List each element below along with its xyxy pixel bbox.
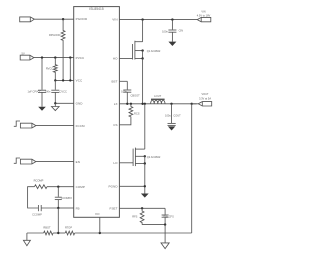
capacitor CVCC bbox=[54, 80, 56, 89]
svg-text:RCOMP: RCOMP bbox=[34, 178, 44, 182]
transistor Q2 (low side) bbox=[132, 149, 134, 166]
node EN input flag with pulse bbox=[14, 158, 20, 163]
svg-text:BST: BST bbox=[111, 79, 117, 83]
svg-text:100p CFS: 100p CFS bbox=[163, 216, 175, 219]
node junction FSET gnd bbox=[164, 223, 166, 225]
svg-text:FSET: FSET bbox=[110, 206, 118, 210]
svg-text:COMP: COMP bbox=[76, 185, 85, 189]
svg-text:CBOOT: CBOOT bbox=[131, 93, 141, 97]
capacitor CPVCC bbox=[41, 58, 43, 90]
node junction COUT bbox=[170, 103, 172, 105]
svg-text:GND: GND bbox=[76, 102, 84, 106]
node junction VCC/Rpgood bbox=[62, 79, 64, 81]
svg-text:100n: 100n bbox=[162, 30, 168, 34]
svg-text:EN: EN bbox=[76, 160, 80, 164]
wire FB to divider bbox=[57, 208, 59, 233]
svg-text:CIN: CIN bbox=[179, 29, 184, 33]
node junction Q1 drain bbox=[141, 18, 143, 20]
svg-text:100u: 100u bbox=[165, 114, 171, 118]
svg-text:PGND: PGND bbox=[109, 184, 119, 188]
resistor RCS bbox=[119, 104, 132, 125]
svg-text:VO: VO bbox=[95, 212, 100, 216]
node junction PGND bbox=[144, 185, 146, 187]
wire FSET bottom bbox=[142, 224, 165, 226]
svg-text:CS: CS bbox=[113, 123, 117, 127]
svg-text:1uF CPVCC: 1uF CPVCC bbox=[28, 91, 42, 94]
resistor RBOT bbox=[44, 231, 54, 235]
node 5V input flag bbox=[20, 55, 34, 60]
ground (open V, FSET) bbox=[161, 243, 169, 249]
svg-text:4.5V to 18V: 4.5V to 18V bbox=[197, 13, 211, 17]
node junction Rcs/LX bbox=[130, 103, 132, 105]
node junction feedback bbox=[191, 103, 193, 105]
wire PGOOD flag to pin bbox=[34, 18, 73, 20]
node junction VO pin bbox=[99, 232, 101, 234]
capacitor CFS bbox=[164, 208, 166, 214]
op-amp U1 (regulator IC body) bbox=[74, 7, 120, 218]
node junction Q1 source/LX bbox=[141, 103, 143, 105]
wire COMP pin bbox=[47, 186, 74, 188]
node junction GND/Cvcc bbox=[54, 102, 56, 104]
node junction Cpvcc bbox=[41, 56, 43, 58]
svg-text:CCOMP: CCOMP bbox=[32, 213, 42, 217]
wire VOUT rail bbox=[165, 103, 197, 105]
svg-text:RVCC: RVCC bbox=[46, 67, 53, 71]
node junction VCC/link bbox=[69, 79, 71, 81]
node junction PGOOD/Rpgood bbox=[62, 18, 64, 20]
svg-text:RBOT: RBOT bbox=[43, 226, 51, 230]
svg-text:PVCC: PVCC bbox=[76, 56, 85, 60]
svg-text:VIN: VIN bbox=[112, 18, 117, 22]
svg-text:COUT: COUT bbox=[173, 114, 181, 118]
wire VIN rail bbox=[119, 19, 197, 21]
svg-text:RFS: RFS bbox=[132, 214, 137, 218]
inductor LOUT bbox=[151, 100, 165, 104]
node VOUT flag bbox=[198, 102, 211, 106]
node junction Q2 drain/LX bbox=[144, 103, 146, 105]
capacitor CBOOT bbox=[126, 81, 128, 89]
wire FSET to ground bbox=[164, 225, 166, 243]
resistor RPGOOD bbox=[61, 19, 65, 80]
svg-text:VCC: VCC bbox=[76, 79, 83, 83]
transistor Q1 (high side) bbox=[132, 44, 134, 60]
svg-text:HO: HO bbox=[113, 57, 118, 61]
capacitor CCOMP2 (parallel) bbox=[57, 186, 59, 188]
node junction FB bbox=[57, 207, 59, 209]
svg-text:3.3V at 5A: 3.3V at 5A bbox=[199, 96, 211, 100]
svg-text:RCS: RCS bbox=[134, 111, 140, 115]
wire feedback from VOUT bbox=[191, 104, 193, 233]
wire divider rail left bbox=[27, 232, 44, 234]
svg-text:VIN: VIN bbox=[201, 11, 205, 14]
svg-text:CCOMP2: CCOMP2 bbox=[61, 196, 73, 200]
resistor RTOP bbox=[65, 231, 75, 235]
node junction Cboot/LX bbox=[126, 103, 128, 105]
resistor RFS bbox=[140, 208, 144, 224]
resistor RCOMP bbox=[34, 185, 47, 189]
node VIN flag bbox=[197, 17, 211, 21]
svg-text:PGOOD: PGOOD bbox=[76, 17, 88, 21]
wire FSET pin bbox=[119, 207, 165, 209]
wire VO pin stub bbox=[99, 217, 101, 233]
ground (solid, under CPVCC) bbox=[38, 107, 46, 111]
wire VCC rail bbox=[55, 79, 73, 81]
capacitor CCOMP bbox=[37, 205, 39, 211]
resistor RVCC bbox=[53, 58, 57, 81]
svg-text:FB: FB bbox=[76, 206, 80, 210]
wire LX rail bbox=[119, 103, 150, 105]
wire GND pin bbox=[55, 102, 73, 104]
svg-text:100n: 100n bbox=[45, 90, 51, 94]
wire FB pin bbox=[58, 207, 73, 209]
node FCCM input flag with pulse bbox=[14, 121, 20, 126]
svg-text:Q2 AO4842: Q2 AO4842 bbox=[147, 155, 161, 159]
svg-text:FCCM: FCCM bbox=[76, 124, 85, 128]
node junction divider/FB bbox=[57, 232, 59, 234]
wire Q1 source to LX bbox=[142, 59, 144, 104]
svg-text:100n: 100n bbox=[121, 90, 127, 94]
wire EN flag to pin bbox=[36, 161, 74, 163]
svg-text:RPGOOD: RPGOOD bbox=[49, 33, 61, 37]
wire FCCM flag to pin bbox=[36, 125, 74, 127]
svg-text:LX: LX bbox=[114, 102, 118, 106]
node PGOOD input flag bbox=[20, 17, 35, 22]
svg-text:ISL85415: ISL85415 bbox=[89, 7, 104, 11]
wire PVCC to VCC link bbox=[69, 58, 71, 81]
wire PGND pin bbox=[119, 185, 144, 187]
node junction PVCC-VCC link top bbox=[69, 56, 71, 58]
ground (solid, power) bbox=[141, 194, 149, 198]
wire BST pin bbox=[119, 80, 127, 82]
wire LO gate drive bbox=[119, 162, 133, 164]
svg-text:CVCC: CVCC bbox=[60, 90, 67, 94]
ground (open, under CVCC) bbox=[54, 103, 56, 106]
svg-text:LO: LO bbox=[113, 161, 118, 165]
capacitor CVIN bbox=[171, 20, 173, 30]
svg-text:RTOP: RTOP bbox=[65, 226, 72, 230]
svg-text:Q1 AO4842: Q1 AO4842 bbox=[147, 49, 161, 53]
ground (open V, divider) bbox=[26, 233, 28, 240]
wire Q2 source to PGND bbox=[144, 164, 146, 194]
node junction VCC/Cvcc bbox=[54, 79, 56, 81]
wire HO gate drive bbox=[119, 58, 132, 60]
node junction CVIN bbox=[171, 18, 173, 20]
svg-text:5V: 5V bbox=[22, 52, 25, 56]
wire COMP left corner bbox=[28, 187, 39, 208]
node junction Rvcc top bbox=[54, 56, 56, 58]
wire divider mid bbox=[53, 232, 65, 234]
svg-text:VOUT: VOUT bbox=[202, 93, 209, 96]
svg-text:LOUT: LOUT bbox=[154, 94, 161, 98]
wire divider rail right to feedback bbox=[75, 232, 192, 234]
ground (solid, under CVIN) bbox=[168, 42, 176, 46]
node junction RFS bbox=[141, 207, 143, 209]
capacitor COUT bbox=[171, 104, 173, 123]
ground (open, under COUT) bbox=[168, 126, 175, 130]
wire 5V flag to PVCC pin bbox=[34, 57, 74, 59]
